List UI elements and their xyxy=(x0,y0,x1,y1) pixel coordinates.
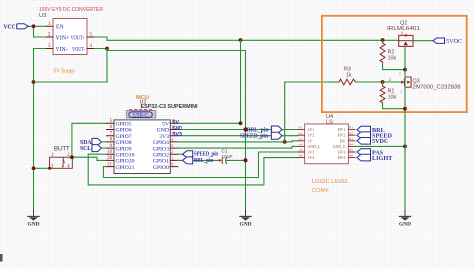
MCU U2 xyxy=(107,95,198,174)
svg-text:HV3: HV3 xyxy=(338,151,346,155)
wire R2 bottom to gate node xyxy=(383,63,405,70)
svg-text:10: 10 xyxy=(107,150,112,155)
flag SPEED_pin near MCU xyxy=(178,151,219,158)
svg-text:LV: LV xyxy=(308,139,313,143)
wire GND row to U4 LV1 xyxy=(178,129,298,131)
svg-text:5VDC: 5VDC xyxy=(372,138,389,145)
power switch section box xyxy=(322,16,467,112)
svg-text:VIN-: VIN- xyxy=(56,47,68,53)
svg-text:GND: GND xyxy=(240,221,252,227)
node GND row junction xyxy=(243,127,247,131)
wire VCC branch to VIN+ xyxy=(34,26,47,37)
svg-text:B2: B2 xyxy=(349,131,353,135)
svg-text:2: 2 xyxy=(171,150,173,154)
wire BUTT pin3 to GND rail xyxy=(34,167,50,169)
node 5V drop junction xyxy=(239,38,243,42)
svg-text:SPEED_pin: SPEED_pin xyxy=(240,133,268,140)
wire R1 bottom rail xyxy=(383,103,405,109)
resistor R2 xyxy=(380,40,396,63)
svg-text:GPIO21: GPIO21 xyxy=(116,165,135,171)
svg-text:5V Suppy: 5V Suppy xyxy=(54,69,76,75)
wire GPIO3 row to U4 GND_L xyxy=(178,146,298,148)
node Q3 gate junction xyxy=(381,80,385,84)
node C1 GND junction xyxy=(243,158,247,162)
wire R3 tap up xyxy=(285,82,339,142)
wire BUTT pin2 up to GPIO5 xyxy=(72,123,107,157)
flag BRL_pin mid xyxy=(247,126,282,134)
svg-text:B5: B5 xyxy=(349,148,353,152)
svg-text:GPIO3: GPIO3 xyxy=(153,146,169,152)
svg-text:HV2: HV2 xyxy=(338,134,346,138)
svg-text:GPIO1: GPIO1 xyxy=(153,159,169,165)
node VCC junction xyxy=(32,24,36,28)
svg-text:GPIO8: GPIO8 xyxy=(116,140,132,146)
svg-text:VOUT-: VOUT- xyxy=(72,47,85,53)
svg-text:EN: EN xyxy=(56,25,65,31)
svg-text:LV1: LV1 xyxy=(308,128,315,132)
node R2 top junction xyxy=(381,38,385,42)
ground middle xyxy=(240,210,252,227)
svg-text:100V EY9 DC CONVERTER: 100V EY9 DC CONVERTER xyxy=(39,7,103,13)
flag SDA xyxy=(80,138,107,146)
svg-text:20: 20 xyxy=(107,156,112,161)
svg-text:B4: B4 xyxy=(349,143,353,147)
wire BUTT pin2 to GPIO20 xyxy=(72,157,107,160)
flag 5VDC top xyxy=(433,38,462,45)
node GND_E junction xyxy=(403,145,407,149)
svg-text:5V: 5V xyxy=(173,120,180,126)
transistor Q2 xyxy=(387,21,420,47)
svg-text:U3: U3 xyxy=(39,13,46,19)
svg-text:GPIO5: GPIO5 xyxy=(116,122,132,128)
svg-text:HV1: HV1 xyxy=(338,128,346,132)
node BUTT pin2 junction xyxy=(70,155,74,159)
svg-text:5VDC: 5VDC xyxy=(446,38,462,45)
transistor Q3 xyxy=(389,72,461,94)
node GND rail junction xyxy=(32,80,36,84)
resistor R1 xyxy=(380,82,396,103)
svg-text:HV4: HV4 xyxy=(338,156,346,160)
wire Q3 channel vertical xyxy=(404,70,406,211)
flag BRL xyxy=(357,126,385,134)
svg-text:LOGIC LEVEL: LOGIC LEVEL xyxy=(312,179,349,185)
svg-text:GND: GND xyxy=(173,126,183,132)
node VOUT- junction xyxy=(105,47,109,51)
svg-text:2N7000_C232838: 2N7000_C232838 xyxy=(413,84,461,90)
node Q2 gate junction xyxy=(403,68,407,72)
svg-text:HV: HV xyxy=(340,139,346,143)
svg-text:A3: A3 xyxy=(299,137,303,141)
flag VCC xyxy=(4,23,29,30)
svg-text:B3: B3 xyxy=(349,137,353,141)
flag PAS xyxy=(357,149,384,157)
svg-text:5: 5 xyxy=(399,72,401,76)
svg-text:SCL: SCL xyxy=(80,146,91,152)
svg-text:A1: A1 xyxy=(299,126,303,130)
svg-text:GPIO10: GPIO10 xyxy=(116,152,135,158)
svg-text:IRLML6401: IRLML6401 xyxy=(387,26,420,32)
svg-text:BRL_pin: BRL_pin xyxy=(194,157,213,164)
svg-text:10k: 10k xyxy=(388,56,397,62)
svg-text:GPIO7: GPIO7 xyxy=(116,134,132,140)
wire VIN- to GND rail down to left ground xyxy=(34,49,47,212)
node BUTT pin3 xyxy=(48,167,51,170)
wire GPIO21 wrap to U4 LV3 xyxy=(103,152,298,178)
wire GND long run to middle rail xyxy=(107,49,246,212)
svg-text:A2: A2 xyxy=(299,131,303,135)
wire GND_E to right rail xyxy=(355,145,405,147)
svg-text:GND: GND xyxy=(28,221,40,227)
flag 5VDC xyxy=(357,138,389,146)
svg-text:1k: 1k xyxy=(346,72,352,78)
svg-text:GPIO9: GPIO9 xyxy=(116,146,132,152)
svg-text:SDA: SDA xyxy=(80,140,92,146)
flag LIGHT xyxy=(357,154,393,162)
svg-text:A6: A6 xyxy=(299,154,303,158)
flag SCL xyxy=(80,145,107,153)
resistor R3 xyxy=(328,67,383,85)
wire gate to Q3 xyxy=(383,81,401,83)
svg-text:0: 0 xyxy=(171,163,173,167)
svg-text:GPIO0: GPIO0 xyxy=(153,165,169,171)
flag SPEED_pin mid xyxy=(240,132,282,140)
svg-text:USB-C: USB-C xyxy=(133,114,148,119)
svg-text:GPIO6: GPIO6 xyxy=(116,128,132,134)
svg-text:10k: 10k xyxy=(388,95,397,101)
wire Q2 drain to 5VDC xyxy=(413,40,433,42)
wire GPIO1 row to C1 xyxy=(178,159,221,161)
svg-text:3V3: 3V3 xyxy=(159,134,169,140)
wire 5V drop to MCU 5V pin xyxy=(240,40,242,123)
svg-text:2: 2 xyxy=(389,77,391,82)
svg-text:2: 2 xyxy=(401,90,403,94)
svg-text:3V3: 3V3 xyxy=(173,132,183,138)
svg-text:GND_E: GND_E xyxy=(333,145,346,149)
wire VCC to EN xyxy=(29,25,47,27)
svg-text:VOUT+: VOUT+ xyxy=(71,35,86,41)
node BUTT pin3 rail junction xyxy=(32,166,36,170)
ground right xyxy=(399,210,411,227)
flag BRL_pin near MCU xyxy=(183,157,214,164)
svg-text:21: 21 xyxy=(107,162,112,167)
svg-text:GND: GND xyxy=(399,221,411,227)
svg-text:5V: 5V xyxy=(162,122,170,128)
wire GPIO4 row to U4 LV xyxy=(178,141,298,142)
svg-text:GPIO4: GPIO4 xyxy=(153,140,169,146)
svg-text:LV3: LV3 xyxy=(308,151,315,155)
ground left xyxy=(28,210,40,227)
level converter U4 xyxy=(298,114,355,164)
svg-text:10uF: 10uF xyxy=(222,154,233,160)
switch BUTT xyxy=(50,147,73,170)
svg-text:VIN+: VIN+ xyxy=(56,35,70,41)
svg-text:0: 0 xyxy=(401,31,403,35)
screen edge artifact xyxy=(0,254,3,262)
svg-text:VCC: VCC xyxy=(4,23,16,30)
converter U3 xyxy=(39,7,103,55)
wire VOUT- supply return loop xyxy=(34,49,108,83)
svg-text:GND: GND xyxy=(157,128,169,134)
svg-text:A5: A5 xyxy=(299,148,303,152)
svg-text:LIGHT: LIGHT xyxy=(372,155,393,162)
svg-text:LV2: LV2 xyxy=(308,134,315,138)
flag SPEED xyxy=(357,132,392,140)
wire 5V row xyxy=(178,122,241,124)
wire Q2 gate down xyxy=(404,46,406,69)
node bottom rail junction xyxy=(403,107,407,111)
svg-text:4: 4 xyxy=(171,138,173,142)
wire 3V3 row to U4 LV2 xyxy=(178,135,298,137)
svg-text:BUTT: BUTT xyxy=(54,147,70,153)
svg-text:B1: B1 xyxy=(349,126,353,130)
svg-text:LV4: LV4 xyxy=(308,156,315,160)
svg-text:GPIO2: GPIO2 xyxy=(153,152,169,158)
svg-text:A4: A4 xyxy=(299,143,303,147)
svg-text:B6: B6 xyxy=(349,154,353,158)
connector USB-C xyxy=(126,111,156,119)
svg-text:CONV.: CONV. xyxy=(312,188,330,194)
svg-text:1: 1 xyxy=(171,156,173,160)
svg-text:C1: C1 xyxy=(222,149,228,155)
wire GPIO10 wrap to U4 LV4 xyxy=(88,154,298,185)
capacitor C1 xyxy=(219,149,246,164)
node MCU 5V junction xyxy=(239,121,243,125)
node R3 tap junction xyxy=(283,140,287,144)
svg-text:3: 3 xyxy=(171,144,173,148)
svg-text:GPIO20: GPIO20 xyxy=(116,159,135,165)
wire 5V long run xyxy=(94,37,399,40)
svg-text:GND_L: GND_L xyxy=(308,145,321,149)
